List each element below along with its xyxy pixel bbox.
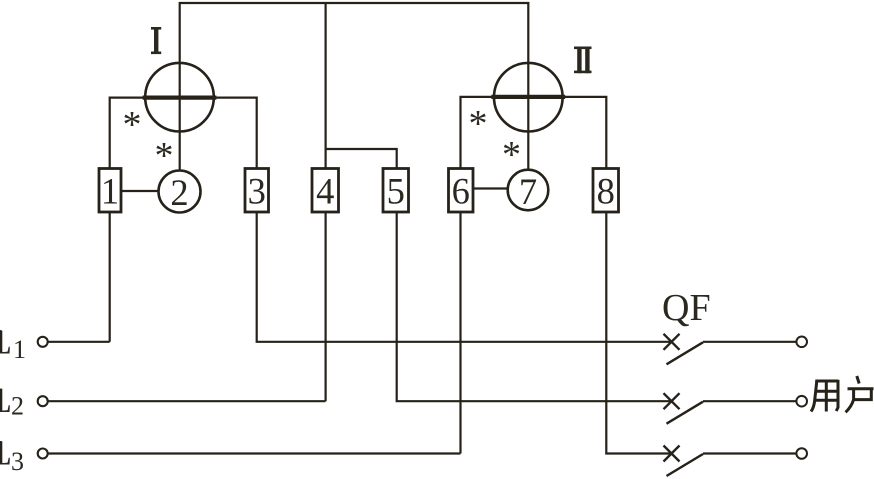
svg-text:2: 2 xyxy=(11,392,24,421)
wire: current coil I left end to terminal 1 xyxy=(110,98,144,169)
wire: L3 terminal to terminal 6 drop xyxy=(48,452,460,454)
svg-text:2: 2 xyxy=(170,172,188,213)
wire: terminal 8 down and right to QF pole 3 xyxy=(606,212,671,454)
wire: terminal 1 down to L1 feed xyxy=(109,212,111,342)
wire: terminal 6 to terminal 7 xyxy=(473,187,508,189)
terminal 6 xyxy=(449,169,474,213)
terminal 2 xyxy=(159,171,201,214)
svg-text:1: 1 xyxy=(101,171,119,212)
svg-text:*: * xyxy=(502,134,521,176)
wire: voltage coil lead element I (top rail down to terminal 2) xyxy=(179,2,181,170)
wire: terminal 3 down and right to QF pole 1 xyxy=(257,212,672,342)
wire: terminal 4 down to L2 feed xyxy=(325,212,327,401)
node: L2 source terminal xyxy=(38,396,48,406)
wire: L2 terminal to terminal 4 drop xyxy=(48,400,325,402)
node: load terminal pole 3 xyxy=(796,448,807,459)
wire: current coil I right end to terminal 3 xyxy=(215,98,257,169)
svg-text:QF: QF xyxy=(662,287,711,329)
node: load terminal pole 2 xyxy=(796,396,807,407)
meter element II (circle with current-coil bar) xyxy=(491,63,565,132)
svg-text:3: 3 xyxy=(248,171,266,212)
svg-text:*: * xyxy=(469,103,488,145)
terminal 1 xyxy=(99,169,121,213)
label L2 xyxy=(0,380,24,421)
wire: QF pole 1 to load terminal 1 xyxy=(703,341,796,343)
wire: L1 terminal to terminal 1 drop xyxy=(48,341,109,343)
svg-text:4: 4 xyxy=(316,171,334,212)
svg-text:5: 5 xyxy=(387,171,405,212)
terminal 8 xyxy=(593,169,619,213)
terminal 5 xyxy=(383,169,409,213)
svg-text:*: * xyxy=(123,104,142,146)
wire: voltage tap to terminal 4 (top rail down to terminal 4) xyxy=(325,2,327,169)
wire: QF pole 2 to load terminal 2 xyxy=(703,400,796,402)
svg-text:8: 8 xyxy=(597,171,615,212)
terminal 3 xyxy=(245,169,269,213)
node: L1 source terminal xyxy=(38,337,48,347)
wire: current coil II right end to terminal 8 xyxy=(564,97,607,169)
wire: QF pole 3 to load terminal 3 xyxy=(703,452,796,454)
svg-text:*: * xyxy=(155,135,174,177)
svg-text:6: 6 xyxy=(452,171,470,212)
terminal 4 xyxy=(312,169,339,213)
label L3 xyxy=(0,433,24,477)
wire: terminal 6 down to L3 feed xyxy=(459,212,461,454)
wire: voltage coil lead element II (top rail down to terminal 7) xyxy=(527,2,529,170)
wire: bridge between terminal 4 and terminal 5 xyxy=(326,149,397,169)
node: load terminal pole 1 xyxy=(796,337,807,348)
label I (element I designator) xyxy=(151,27,161,54)
terminal 7 xyxy=(508,170,549,212)
svg-text:L: L xyxy=(0,322,12,362)
wire: top voltage rail xyxy=(179,2,529,4)
svg-text:3: 3 xyxy=(11,447,24,476)
svg-text:1: 1 xyxy=(13,335,26,364)
svg-text:7: 7 xyxy=(519,171,537,212)
node: L3 source terminal xyxy=(38,449,48,459)
breaker QF pole 3 (contact cross + blade) xyxy=(664,446,704,477)
label II (element II designator) xyxy=(574,47,592,74)
label 用户 (load / consumer), drawn strokes xyxy=(811,376,874,412)
breaker QF pole 1 (contact cross + blade) xyxy=(664,334,704,365)
label L1 xyxy=(0,322,26,365)
meter element I (circle with current-coil bar) xyxy=(143,63,217,132)
wire: terminal 1 to terminal 2 xyxy=(121,190,158,192)
wire: terminal 5 down and right to QF pole 2 xyxy=(397,212,672,401)
breaker QF pole 2 (contact cross + blade) xyxy=(664,393,704,424)
wire: current coil II left end to terminal 6 xyxy=(461,97,494,169)
